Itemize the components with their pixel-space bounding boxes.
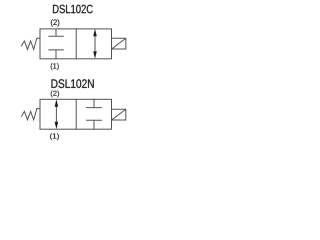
valve V2 port label (2)	[51, 91, 59, 98]
valve V2 spring	[22, 109, 41, 120]
valve V2 flow path arrow stem	[55, 103, 57, 125]
valve V2 closed position port (1) T symbol	[87, 120, 102, 129]
label DSL102N	[51, 79, 93, 88]
valve V2 closed position port (2) T symbol	[87, 99, 102, 107]
valve V2 arrow head up	[55, 99, 59, 106]
valve V1 flow path arrow stem	[94, 33, 96, 55]
valve V1 spring	[22, 38, 41, 49]
valve V1 port label (2)	[51, 19, 59, 26]
valve V1 closed position port (1) T symbol	[49, 50, 63, 59]
solenoid coil Y2	[112, 109, 126, 120]
label DSL102C	[53, 5, 93, 14]
valve V2 position divider	[75, 99, 77, 129]
valve V1 position divider	[75, 29, 77, 59]
valve V1 arrow head down	[93, 51, 97, 58]
valve V2 port label (1)	[50, 133, 59, 140]
valve V1 port label (1)	[51, 63, 59, 70]
valve V2 arrow head down	[55, 122, 59, 129]
valve V2 body (DSL102N)	[40, 99, 112, 129]
solenoid coil Y1	[112, 38, 126, 49]
valve V1 arrow head up	[93, 29, 97, 36]
valve V1 closed position port (2) T symbol	[49, 29, 63, 36]
valve V1 body (DSL102C)	[40, 29, 112, 59]
